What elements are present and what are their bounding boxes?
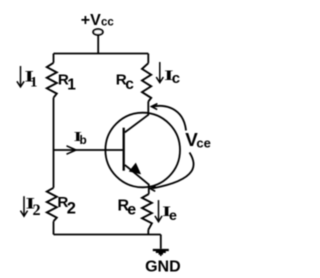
svg-text:c: c: [172, 70, 180, 87]
svg-text:ce: ce: [196, 135, 210, 150]
svg-text:c: c: [125, 76, 134, 93]
svg-text:2: 2: [67, 200, 76, 218]
svg-text:e: e: [169, 208, 177, 224]
svg-text:cc: cc: [101, 17, 114, 29]
svg-text:b: b: [80, 133, 87, 147]
svg-text:1: 1: [67, 76, 76, 93]
svg-text:e: e: [127, 202, 136, 219]
svg-text:1: 1: [30, 75, 37, 91]
svg-text:+V: +V: [81, 12, 101, 29]
svg-text:2: 2: [33, 201, 41, 219]
svg-text:GND: GND: [145, 258, 181, 275]
